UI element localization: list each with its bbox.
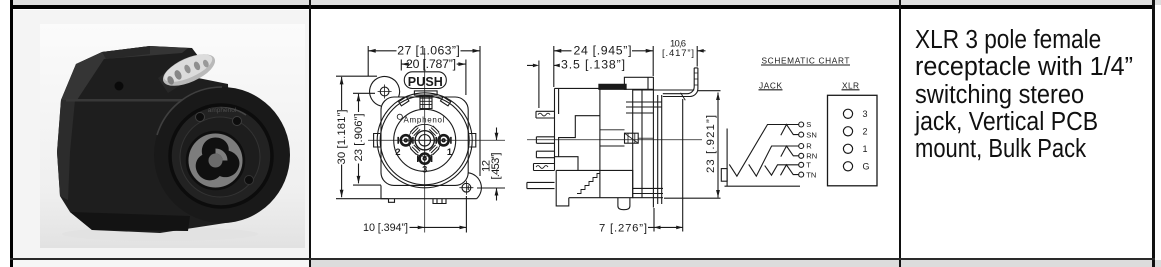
small hole on body	[115, 82, 124, 91]
svg-text:27 [1.063”]: 27 [1.063”]	[397, 44, 460, 58]
svg-text:3: 3	[422, 164, 427, 174]
pin holes	[196, 113, 205, 122]
plate top lines	[626, 102, 662, 113]
dim 30	[336, 76, 388, 199]
svg-text:1: 1	[863, 144, 868, 154]
svg-text:[.453”]: [.453”]	[490, 153, 502, 180]
svg-text:T: T	[806, 161, 811, 170]
body facet highlights	[61, 46, 188, 100]
svg-text:3.5 [.138”]: 3.5 [.138”]	[561, 58, 625, 72]
svg-text:S: S	[806, 120, 811, 129]
jack sleeve tab	[721, 169, 727, 182]
center recess ring	[187, 132, 244, 189]
jack contact S	[729, 125, 798, 177]
lower block	[556, 170, 633, 206]
table right border	[1152, 0, 1154, 267]
jack frame	[725, 129, 801, 187]
internal steps	[559, 116, 600, 157]
terminal circles	[799, 122, 804, 127]
svg-text:2: 2	[395, 147, 400, 157]
latch slider tab	[414, 91, 437, 95]
previous row gray band	[13, 0, 1161, 5]
next row left cell strip	[13, 260, 309, 267]
front face	[169, 104, 273, 208]
base tab center	[433, 199, 446, 204]
connector rear body	[57, 46, 232, 233]
XLR pin circles	[843, 109, 852, 118]
svg-text:RN: RN	[806, 152, 817, 161]
pin row 5 (long)	[527, 182, 555, 188]
base tab left	[389, 199, 395, 203]
jack center rings	[415, 131, 434, 150]
dim 27	[368, 46, 480, 176]
collar hatching LR	[429, 145, 439, 155]
trilobe black	[196, 137, 240, 180]
dim 24	[554, 46, 653, 87]
svg-text:30 [1.181”]: 30 [1.181”]	[336, 110, 348, 165]
dim 23 left	[353, 93, 381, 185]
center line horizontal	[368, 139, 505, 141]
photo background	[40, 24, 305, 248]
bezel outer circle	[377, 93, 472, 188]
divider photo/drawing	[309, 0, 311, 267]
collar hatching LL	[410, 145, 420, 155]
center line vertical	[424, 48, 426, 233]
bottom flange	[70, 212, 190, 231]
svg-text:20 [.787”]: 20 [.787”]	[406, 57, 456, 71]
latch hatched block	[420, 95, 432, 109]
svg-text:[.417”]: [.417”]	[662, 48, 694, 59]
svg-text:1: 1	[447, 147, 452, 157]
svg-text:23 [.921”]: 23 [.921”]	[705, 115, 717, 173]
dim 10,6	[696, 46, 698, 67]
XLR box	[828, 95, 878, 186]
bezel side notch left	[374, 134, 381, 148]
title underline	[759, 65, 860, 90]
svg-text:24 [.945”]: 24 [.945”]	[574, 44, 632, 58]
bezel wing tab right	[440, 97, 450, 106]
latch block	[624, 77, 653, 89]
pin row 3	[536, 151, 554, 158]
dim 23 right	[664, 91, 721, 199]
table bottom border	[10, 258, 1155, 260]
mounting flange	[381, 97, 468, 185]
hole bottom-right	[462, 183, 471, 192]
base plate	[381, 185, 477, 198]
plate corner bevel	[681, 93, 686, 101]
flange ear bottom-right	[468, 173, 481, 199]
jack contact R	[749, 146, 799, 176]
svg-text:2: 2	[863, 127, 868, 137]
svg-text:PUSH: PUSH	[408, 75, 443, 89]
svg-text:23 [.906”]: 23 [.906”]	[353, 114, 365, 162]
svg-text:XLR: XLR	[842, 80, 859, 90]
pin 1 (right)	[439, 135, 449, 145]
latch stem	[158, 68, 182, 93]
dim 20	[401, 60, 466, 96]
staircase	[577, 174, 600, 194]
svg-text:7 [.276”]: 7 [.276”]	[599, 222, 647, 234]
svg-text:SN: SN	[806, 130, 817, 139]
pin row 4 (wavy)	[534, 164, 555, 171]
knurled collar	[409, 124, 441, 156]
contact TN	[781, 165, 799, 176]
body top	[555, 87, 600, 89]
mid vertical	[599, 88, 601, 197]
dim 10	[465, 196, 467, 233]
table left border	[10, 0, 14, 267]
center line	[527, 139, 702, 141]
body left edge	[555, 88, 559, 170]
PUSH button outline	[404, 72, 446, 89]
pin row 2	[536, 137, 554, 144]
pin 2 (left)	[401, 135, 411, 145]
svg-text:TN: TN	[806, 170, 816, 179]
Amphenol R mark	[397, 114, 402, 119]
contact box	[625, 133, 639, 143]
jack contact T	[765, 165, 799, 175]
bezel circle 2	[380, 96, 469, 185]
svg-text:Amphenol: Amphenol	[404, 116, 445, 125]
table top border	[10, 5, 1155, 9]
latch button silver	[159, 48, 220, 93]
next row middle/right strip	[311, 260, 1161, 267]
contact SN	[781, 125, 799, 136]
divider drawing/text	[899, 0, 901, 267]
svg-text:3: 3	[863, 109, 868, 119]
face plate verticals	[633, 89, 662, 207]
svg-text:R: R	[806, 142, 812, 151]
flange ear top-left	[370, 76, 400, 106]
peg	[618, 198, 630, 210]
dim 7	[654, 99, 683, 232]
dim 3.5	[538, 61, 540, 109]
bezel circle	[154, 87, 290, 223]
plate top edge line	[633, 89, 695, 91]
bezel wing tab left	[399, 97, 409, 106]
pin 3 (bottom)	[420, 154, 430, 164]
hole top-left	[380, 87, 389, 96]
svg-text:JACK: JACK	[759, 80, 782, 90]
ground shadow	[62, 227, 258, 241]
pin row 1 (wavy)	[536, 111, 555, 118]
body seam	[66, 99, 190, 102]
svg-text:10 [.394”]: 10 [.394”]	[363, 222, 408, 234]
plate bottom lines	[633, 188, 663, 197]
mounting bracket lug	[663, 68, 698, 97]
center bore	[209, 154, 223, 168]
svg-text:G: G	[863, 162, 870, 172]
contact feed lines	[600, 130, 625, 146]
dim 12	[477, 187, 505, 189]
bezel side notch right	[469, 134, 476, 148]
svg-text:SCHEMATIC CHART: SCHEMATIC CHART	[762, 56, 850, 66]
collar hatching UR	[429, 126, 439, 136]
black bar	[599, 84, 626, 89]
photo cell background	[13, 10, 309, 259]
contact RN	[781, 146, 799, 157]
collar hatching UL	[410, 126, 420, 136]
inner face circle	[394, 109, 456, 171]
svg-text:amphenol: amphenol	[208, 107, 237, 114]
